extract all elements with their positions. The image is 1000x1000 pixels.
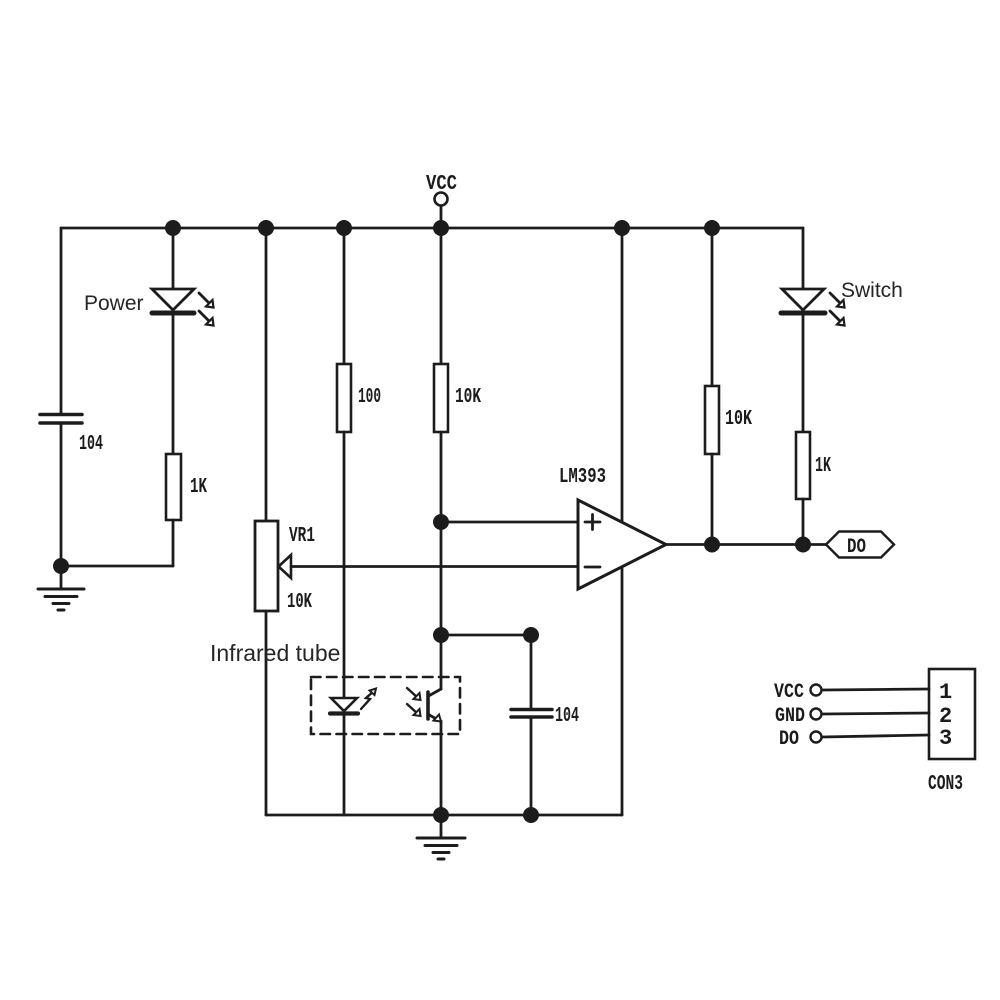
pin VCC terminal circle [811,685,822,696]
wire VCC rail to R3 [440,228,443,364]
pin GND wire [822,713,929,714]
wire C2 bottom to rail [530,717,533,815]
wire bottom rail [266,814,622,817]
svg-text:VCC: VCC [426,173,457,196]
resistor R3 10K [434,364,448,432]
capacitor C1 104 [40,415,82,424]
wire top rail [61,227,803,230]
VCC terminal [435,193,448,229]
pin GND terminal circle [811,709,822,720]
wire cap to ground node [60,423,63,566]
resistor R1 1K [166,454,181,520]
wire plus input [441,521,578,524]
wire R2 to IR LED [343,432,346,698]
wire LED to R1 [172,313,175,454]
wire VCC rail to VR1 [265,228,268,521]
LED D1 Power [152,289,214,326]
resistor R2 100 [337,364,351,432]
Infrared tube dashed box [311,677,460,734]
wire R1 to ground node [61,520,173,566]
wire node to ground symbol [60,566,63,589]
node filter junction A [433,627,449,643]
pin DO wire [822,735,929,737]
potentiometer VR1 [255,521,291,611]
svg-text:10K: 10K [455,386,481,409]
resistor R5 1K [796,432,810,499]
pin DO terminal circle [811,732,822,743]
node output junction 1 [704,537,720,553]
ground left [38,589,84,610]
op-amp U1 LM393 [578,500,666,589]
node ground-left junction [53,558,69,574]
wire VR1 bottom to bottom rail [265,611,268,815]
node bottom rail junction Q1 [433,807,449,823]
svg-text:Switch: Switch [841,279,903,302]
svg-text:1K: 1K [190,476,207,499]
port DO tag [826,532,894,558]
wire LED to R5 [802,313,805,432]
node output junction 2 [795,537,811,553]
wire VCC rail to R4 [711,228,714,386]
svg-text:Infrared tube: Infrared tube [210,640,340,666]
wire VCC rail to comparator supply (vertical through schematic) [621,228,624,815]
wire node A to C2 [441,634,531,637]
wire R5 to output line [802,499,805,544]
svg-text:DO: DO [847,536,866,559]
wire R4 to output line [711,454,714,544]
wire VCC rail to power LED [172,228,175,289]
wire left branch down [60,228,63,414]
wire VCC rail corner to switch LED [802,228,805,289]
wire to center ground [440,815,443,838]
svg-text:1K: 1K [815,455,831,478]
LED D3 infrared emitter [330,689,376,714]
wire comparator output [666,543,826,546]
svg-text:10K: 10K [725,408,752,431]
svg-text:Power: Power [84,292,144,315]
resistor R4 10K [705,386,719,454]
svg-text:DO: DO [779,728,799,751]
wire VCC rail to R2 [343,228,346,364]
wire C2 top [530,635,533,709]
svg-text:10K: 10K [287,591,312,614]
LED D2 Switch [781,289,845,326]
svg-text:104: 104 [79,433,103,456]
svg-text:GND: GND [775,705,805,728]
wire emitter to bottom rail [440,721,443,815]
wire VR1 wiper to comparator minus input [291,565,578,568]
wire IR LED cathode to bottom rail [343,713,346,815]
svg-text:CON3: CON3 [928,773,963,796]
svg-text:1: 1 [939,680,952,705]
connector CON3 [929,669,975,759]
node plus-input junction [433,514,449,530]
svg-text:LM393: LM393 [559,466,606,489]
node C2 top junction [523,627,539,643]
svg-text:104: 104 [555,705,579,728]
node junction dots on top rail [165,220,720,236]
capacitor C2 104 [511,710,552,718]
pin VCC wire [822,689,929,690]
svg-text:VR1: VR1 [289,525,315,548]
svg-text:100: 100 [358,386,381,409]
wire R3 down to phototransistor collector [440,432,443,689]
svg-text:3: 3 [939,726,952,751]
ground center [417,838,465,859]
svg-text:VCC: VCC [774,681,804,704]
phototransistor Q1 [407,688,441,722]
node bottom rail junction C2 [523,807,539,823]
